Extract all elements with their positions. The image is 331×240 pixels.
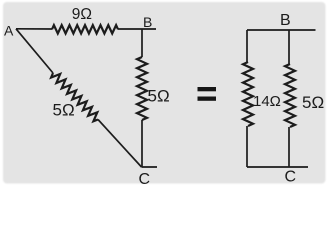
svg-text:C: C [139,171,151,186]
svg-text:5Ω: 5Ω [53,101,75,120]
svg-text:14Ω: 14Ω [253,93,281,110]
svg-text:9Ω: 9Ω [72,6,92,23]
svg-text:A: A [4,23,14,39]
svg-text:B: B [280,12,291,29]
svg-text:B: B [143,14,152,30]
svg-text:5Ω: 5Ω [302,93,324,112]
svg-text:5Ω: 5Ω [148,87,170,106]
svg-text:C: C [285,169,297,186]
